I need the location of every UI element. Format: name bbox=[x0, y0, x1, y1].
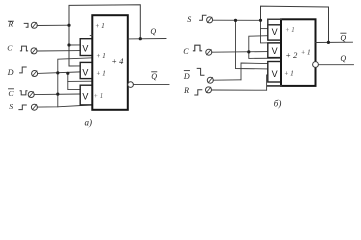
riser wire R to V3 lower pin b bbox=[267, 75, 268, 90]
feedback wire top a bbox=[69, 5, 140, 39]
waveform glyph rising edge at S b bbox=[200, 15, 206, 20]
svg-text:+ 1: + 1 bbox=[94, 93, 104, 100]
feedback stub to V1 upper pin b bbox=[261, 28, 268, 30]
slash of terminal C bbox=[32, 48, 36, 53]
svg-text:C: C bbox=[7, 43, 13, 52]
letter V box1 a bbox=[82, 43, 88, 53]
svg-text:Q: Q bbox=[340, 54, 346, 63]
letter V box3 a bbox=[82, 91, 88, 101]
output wire Q-bar a bbox=[133, 83, 169, 85]
marking +1 section3 b bbox=[284, 71, 294, 78]
counter chip body a bbox=[92, 15, 128, 110]
marking +1 section4 a bbox=[94, 93, 104, 100]
svg-text:+ 2: + 2 bbox=[285, 50, 298, 60]
marking +1 output b bbox=[301, 49, 311, 56]
output wire Q a bbox=[128, 38, 166, 40]
V input box 2 chip b bbox=[268, 43, 281, 58]
stub pin on left edge a bbox=[90, 35, 92, 37]
svg-text:C: C bbox=[183, 47, 189, 56]
wire R to riser b bbox=[211, 89, 266, 91]
slash of terminal C b bbox=[207, 50, 212, 55]
waveform glyph positive pulse at C bbox=[20, 46, 27, 51]
junction dot R-bar feedback bbox=[67, 24, 70, 27]
output wire Q b bbox=[318, 64, 353, 66]
waveform glyph falling edge at R-bar bbox=[24, 23, 28, 27]
output wire Q-bar b bbox=[316, 41, 353, 43]
V input box 1 chip b bbox=[268, 25, 281, 40]
waveform glyph negative pulse at C-bar bbox=[20, 91, 27, 95]
svg-text:V: V bbox=[82, 68, 88, 78]
wire D to V2 lower pin bbox=[38, 72, 81, 74]
terminal circle C bbox=[31, 48, 37, 54]
svg-text:S: S bbox=[9, 102, 13, 111]
overbar of R bbox=[8, 20, 13, 22]
terminal circle C-bar bbox=[28, 92, 34, 98]
overbar of D-bar b bbox=[184, 70, 189, 72]
label R input b bbox=[183, 86, 189, 95]
slash of terminal R-bar bbox=[32, 23, 36, 28]
waveform glyph rising edge at D bbox=[20, 67, 27, 73]
feedback corner to V2 upper pin bbox=[69, 65, 80, 67]
overbar of Q-bar b bbox=[341, 32, 346, 34]
junction dot C-bar branchA bbox=[56, 93, 59, 96]
svg-text:+ 1: + 1 bbox=[301, 49, 311, 56]
label Q output a bbox=[150, 27, 156, 36]
waveform glyph falling edge at D-bar b bbox=[197, 68, 204, 75]
wire C to V2 lower pin b bbox=[212, 51, 268, 54]
wire C to V1 lower pin bbox=[37, 50, 80, 52]
branch vertical D to V3 upper bbox=[68, 73, 80, 89]
letter V box2 a bbox=[82, 68, 88, 78]
waveform glyph rising edge at R b bbox=[195, 90, 202, 95]
label C input a bbox=[7, 43, 13, 52]
inversion bubble Q b bbox=[313, 62, 319, 68]
junction dot S branch b bbox=[234, 19, 237, 22]
bottom edge extension under V column b bbox=[268, 85, 281, 87]
svg-text:Q: Q bbox=[150, 27, 156, 36]
terminal circle D-bar b bbox=[207, 77, 213, 83]
svg-text:V: V bbox=[82, 91, 88, 101]
junction dot Q-bar feedback b bbox=[327, 41, 330, 44]
svg-text:D: D bbox=[183, 72, 190, 81]
svg-text:V: V bbox=[272, 46, 278, 56]
label D input a bbox=[7, 68, 14, 77]
V input box 3 chip a bbox=[80, 85, 92, 105]
terminal circle S bbox=[31, 104, 37, 110]
riser wire D-bar to V3 upper pin b bbox=[241, 63, 268, 80]
marking +1 section2 a bbox=[96, 53, 106, 60]
label D-bar input b bbox=[183, 72, 190, 81]
wire C-bar to V3 pin bbox=[34, 93, 80, 96]
caption b) bbox=[274, 98, 282, 108]
wire D-bar to riser b bbox=[213, 79, 241, 81]
inversion bubble Q-bar a bbox=[128, 82, 134, 88]
overbar of Q-bar a bbox=[152, 71, 157, 73]
label C input b bbox=[183, 47, 189, 56]
svg-text:б): б) bbox=[274, 98, 282, 108]
waveform glyph rising edge at S bbox=[19, 105, 26, 110]
terminal circle R b bbox=[206, 87, 212, 93]
V input box 2 chip a bbox=[80, 62, 92, 78]
feedback vertical to C net a bbox=[68, 25, 70, 66]
label R-bar input a bbox=[8, 19, 14, 28]
label Q-bar output a bbox=[151, 72, 157, 81]
junction dot Q feedback a bbox=[139, 37, 142, 40]
terminal circle C b bbox=[206, 49, 212, 55]
svg-text:S: S bbox=[187, 15, 191, 24]
branch wire D to chip pin below V1 bbox=[58, 58, 93, 73]
terminal circle D bbox=[32, 71, 38, 77]
svg-text:R: R bbox=[183, 86, 189, 95]
junction dot feedback V1 stub bbox=[67, 43, 70, 46]
wire S to chip below V3 bbox=[37, 105, 92, 107]
svg-text:Q: Q bbox=[151, 72, 157, 81]
svg-text:Q: Q bbox=[340, 34, 346, 43]
slash of terminal D-bar b bbox=[208, 78, 213, 83]
branch vertical D to S net bbox=[57, 73, 59, 107]
label Q-bar output b bbox=[340, 34, 346, 43]
branch vertical S to V3 mid pin b bbox=[236, 20, 268, 69]
wire S to feedback vertical b bbox=[213, 19, 261, 21]
svg-text:V: V bbox=[272, 27, 278, 37]
waveform glyph positive pulse at C b bbox=[193, 45, 201, 51]
marking +4 chip a bbox=[111, 56, 124, 66]
letter V box1 b bbox=[272, 27, 278, 37]
caption a) bbox=[85, 117, 93, 127]
branch wire C to V1 lower pin b bbox=[249, 36, 268, 52]
feedback vertical to gap pin b bbox=[261, 20, 282, 43]
svg-text:D: D bbox=[7, 68, 14, 77]
svg-text:+ 1: + 1 bbox=[96, 71, 106, 78]
marking +2 chip b bbox=[285, 50, 298, 60]
V input box 3 chip b bbox=[268, 62, 281, 83]
marking +1 section1 a bbox=[95, 23, 105, 30]
label C-bar input a bbox=[8, 89, 14, 98]
wire R-bar to feedback bbox=[37, 24, 69, 26]
label S input a bbox=[9, 102, 13, 111]
svg-text:V: V bbox=[82, 43, 88, 53]
feedback wire top b bbox=[261, 6, 329, 42]
terminal circle S b bbox=[207, 17, 213, 23]
junction dot C branch b bbox=[247, 50, 250, 53]
svg-text:+ 1: + 1 bbox=[95, 23, 105, 30]
label S input b bbox=[187, 15, 191, 24]
svg-text:+ 1: + 1 bbox=[285, 27, 295, 34]
letter V box2 b bbox=[272, 46, 278, 56]
junction dot D branchA bbox=[56, 71, 59, 74]
svg-text:a): a) bbox=[85, 117, 93, 127]
counter chip body b bbox=[281, 19, 316, 86]
svg-text:C: C bbox=[8, 89, 14, 98]
slash of terminal D bbox=[33, 71, 37, 76]
feedback stub to V1 upper pin bbox=[69, 44, 80, 46]
svg-text:+ 1: + 1 bbox=[284, 71, 294, 78]
letter V box3 b bbox=[272, 69, 278, 79]
slash of terminal S bbox=[32, 105, 36, 110]
overbar of C-bar bbox=[9, 88, 14, 90]
slash of terminal C-bar bbox=[29, 92, 33, 97]
spur wire to chip pin below V2 bbox=[68, 80, 93, 82]
junction dot D branchB bbox=[66, 72, 69, 75]
svg-text:+ 4: + 4 bbox=[111, 56, 124, 66]
junction dot S feedback b bbox=[259, 19, 262, 22]
marking +1 section3 a bbox=[96, 71, 106, 78]
slash of terminal R b bbox=[206, 87, 211, 92]
V input box 1 chip a bbox=[80, 39, 92, 56]
slash of terminal S b bbox=[207, 17, 212, 22]
canopy top edge over V column b bbox=[268, 19, 281, 25]
svg-text:+ 1: + 1 bbox=[96, 53, 106, 60]
branch wire C to gap pin below V2 b bbox=[249, 52, 281, 59]
marking +1 section1 b bbox=[285, 27, 295, 34]
terminal circle R-bar bbox=[31, 22, 37, 28]
svg-text:V: V bbox=[272, 69, 278, 79]
label Q output b bbox=[340, 54, 346, 63]
